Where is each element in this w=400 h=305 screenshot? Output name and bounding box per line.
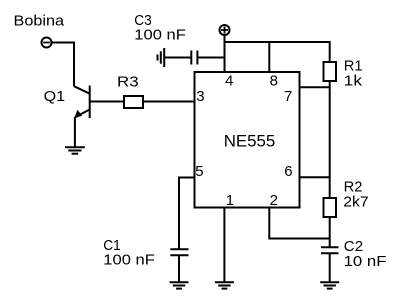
- wire Q1 base to R3: [90, 101, 124, 103]
- terminal Bobina (minus): [42, 38, 52, 48]
- wire top rail to R1: [225, 42, 330, 62]
- capacitor C2: [321, 247, 339, 253]
- wire plus terminal to pin 4: [224, 35, 226, 71]
- terminal plus supply: [220, 25, 230, 35]
- svg-text:100 nF: 100 nF: [134, 27, 186, 44]
- ground (C2): [320, 282, 339, 288]
- svg-text:2k7: 2k7: [343, 194, 368, 211]
- ground (C3, rotated left): [158, 48, 165, 67]
- capacitor C3: [191, 51, 197, 65]
- IC U1 NE555 body: [195, 72, 300, 208]
- svg-text:2: 2: [270, 192, 278, 209]
- wire C3 left lead: [164, 57, 191, 59]
- wire Q1 emitter to ground: [74, 117, 76, 147]
- svg-text:8: 8: [270, 72, 278, 89]
- wire R2 to C2: [329, 217, 331, 247]
- svg-text:1: 1: [226, 192, 234, 209]
- wire Bobina to Q1 collector: [52, 43, 74, 87]
- ground (Q1 emitter): [65, 147, 85, 154]
- svg-text:Bobina: Bobina: [14, 13, 65, 30]
- svg-text:7: 7: [284, 88, 292, 105]
- wire pin 8 to rail: [268, 42, 270, 72]
- ground (C1): [170, 282, 189, 288]
- svg-text:Q1: Q1: [44, 88, 66, 105]
- svg-text:5: 5: [195, 163, 203, 180]
- resistor R2: [324, 198, 337, 217]
- svg-text:NE555: NE555: [224, 132, 276, 151]
- svg-text:4: 4: [225, 72, 233, 89]
- wire C3 to pin4 wire: [197, 57, 224, 59]
- resistor R3: [124, 96, 143, 108]
- svg-text:R3: R3: [117, 74, 139, 91]
- capacitor C1: [170, 249, 188, 255]
- wire R1 to R2: [329, 81, 331, 198]
- wire C1 to ground: [178, 255, 180, 282]
- wire R3 to pin 3: [143, 101, 195, 103]
- svg-text:3: 3: [196, 88, 204, 105]
- svg-text:1k: 1k: [344, 72, 363, 89]
- svg-text:10 nF: 10 nF: [344, 253, 387, 270]
- wire pin 1 to ground: [223, 208, 225, 283]
- wire pin 2 to R2/C2 junction: [269, 208, 329, 239]
- wire C2 to ground: [329, 253, 331, 282]
- wire pin 7: [300, 86, 330, 88]
- wire pin 5 to C1: [179, 178, 195, 250]
- wire pin 6: [300, 176, 330, 178]
- svg-text:6: 6: [284, 163, 292, 180]
- transistor Q1: [74, 86, 90, 119]
- resistor R1: [324, 62, 337, 81]
- ground (pin 1): [215, 282, 234, 288]
- svg-text:100 nF: 100 nF: [103, 252, 155, 269]
